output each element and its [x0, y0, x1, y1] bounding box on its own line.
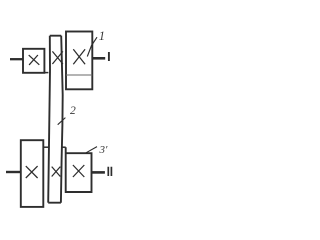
X mark in gear 2 column, top [52, 51, 63, 64]
X mark in gear 1 [73, 49, 85, 64]
leader line to label 2 [58, 118, 66, 125]
wire: shaft I output stub (right) [92, 57, 105, 60]
svg-text:1: 1 [99, 29, 105, 43]
wire: shoulder tick between gear 2 column and gear 3' hub [62, 146, 66, 148]
X mark in gear box C [26, 166, 38, 178]
svg-text:3′: 3′ [99, 144, 109, 156]
leader line to label 1 [87, 37, 97, 56]
divider line (hub step) inside gear 1 box [66, 74, 92, 76]
wire: shaft I input stub (left) [10, 58, 23, 60]
gear 3' box on shaft II (left edge rises to the shoulder) [66, 147, 92, 192]
svg-text:2: 2 [70, 105, 76, 117]
gear box A on shaft I (unlabeled small box) [23, 49, 44, 73]
label I: shaft I roman numeral [108, 52, 110, 61]
gear box C on shaft II (unlabeled tall box) [21, 140, 44, 207]
leader line to label 3' [86, 147, 97, 153]
wire: tick joining box A bottom to gear 2 column [44, 72, 48, 74]
gear 1: large box on shaft I [66, 32, 92, 90]
X mark in gear 2 column, bottom [52, 167, 61, 177]
X mark in gear 3' [73, 165, 84, 177]
wire: shaft II output stub (right) [92, 171, 105, 174]
wire: shaft II input stub (left) [6, 171, 21, 173]
gear 2: long vertical column body [48, 36, 63, 203]
X mark in gear box A (fixed joint) [29, 55, 40, 65]
wire: shoulder tick between box C and gear 2 column [43, 146, 48, 148]
label II: shaft II roman numeral [108, 167, 111, 176]
